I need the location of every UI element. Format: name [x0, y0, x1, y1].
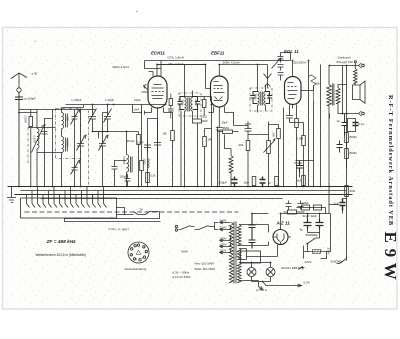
op tube ECH11 envelope — [148, 76, 167, 108]
wire x157 down — [148, 119, 158, 187]
trimmer capacitor C6 — [71, 160, 81, 187]
svg-text:6,3V: 6,3V — [304, 281, 310, 285]
filter caps 32uF + — [304, 219, 312, 230]
secondary HT winding — [237, 225, 241, 246]
svg-text:0,1μF: 0,1μF — [137, 141, 144, 145]
svg-text:4μ: 4μ — [300, 228, 304, 232]
resistor 1k bottom — [252, 177, 256, 186]
capacitor T1 tune right — [193, 97, 201, 110]
capacitor 10n ECL — [286, 113, 293, 123]
svg-text:0,1μF: 0,1μF — [295, 161, 303, 165]
resistor cath ECL — [295, 119, 299, 128]
resistor 25k vert — [246, 141, 250, 151]
wire: AVC bus y=190 — [21, 190, 347, 192]
resistor 800 — [345, 133, 349, 143]
capacitor 0.1u left — [296, 161, 303, 173]
wire x102 — [103, 113, 108, 139]
EBF11 internals — [214, 82, 225, 101]
tuning gang capacitor CV1 — [77, 135, 87, 187]
terminal mains b — [175, 229, 177, 231]
svg-text:32μF 32μF: 32μF 32μF — [303, 214, 318, 218]
antenna plug — [17, 88, 21, 92]
svg-text:0,3k: 0,3k — [151, 174, 157, 178]
svg-text:800Ω: 800Ω — [350, 135, 358, 139]
fuse 5A — [134, 212, 160, 215]
svg-text:G7A, 1,8mA: G7A, 1,8mA — [168, 56, 184, 60]
dash-dot screen around band filter — [56, 109, 81, 159]
wire NSF row — [297, 208, 326, 214]
wire x113 — [99, 105, 108, 139]
wire: chassis bus y=186 — [8, 186, 353, 188]
heater arrow 6,3V — [263, 282, 302, 288]
loudspeaker — [353, 81, 366, 103]
wire L2/L3 column — [62, 107, 84, 109]
socket pin numbers — [132, 243, 148, 262]
title vertical text — [381, 95, 400, 281]
svg-text:L=30pF: L=30pF — [72, 98, 82, 102]
dial lamp 1 — [247, 268, 256, 277]
capacitor 10nF — [133, 105, 152, 115]
capacitor NSF2 — [314, 205, 322, 210]
rectifier tube AZ11 — [273, 230, 288, 245]
IF transformer T1 primary — [185, 65, 187, 113]
tone box — [348, 119, 356, 132]
band switch contacts row — [27, 199, 107, 208]
capacitor cath — [154, 119, 161, 187]
wire x178 — [180, 111, 182, 187]
svg-text:S(bk) 2,6mA: S(bk) 2,6mA — [113, 65, 130, 69]
capacitor padder — [112, 161, 127, 187]
wire: antenna coupling bus — [19, 110, 96, 139]
svg-text:0,0004: 0,0004 — [122, 157, 126, 165]
filter cap 2 — [316, 219, 324, 230]
wire x213 — [209, 113, 234, 126]
svg-text:EGL 11: EGL 11 — [284, 49, 299, 54]
tuning gang capacitor CV2 — [99, 135, 109, 187]
terminal arrows bottom right — [299, 267, 305, 270]
svg-text:2MΩ: 2MΩ — [223, 126, 230, 130]
band switch shaft (dashed) — [25, 211, 239, 213]
svg-text:800Ω: 800Ω — [350, 151, 358, 155]
capacitor 20p — [216, 125, 223, 187]
output transformer core — [332, 84, 334, 106]
svg-text:20pF: 20pF — [222, 121, 228, 125]
tap arrow 240V — [220, 221, 227, 224]
svg-text:2μF: 2μF — [334, 202, 339, 206]
wire electrolytic feed — [252, 213, 269, 215]
shield T1 (dash-dot) — [179, 93, 201, 116]
capacitor stack c3 — [278, 73, 284, 81]
wire x313 down — [313, 101, 315, 187]
capacitor NSF1 — [302, 205, 310, 210]
volume potentiometer — [267, 141, 271, 154]
wire pot top — [248, 134, 269, 136]
trimmer arrow on L1 — [32, 125, 46, 153]
svg-text:25k: 25k — [163, 132, 168, 136]
speck inside — [34, 41, 35, 42]
oscillator coil L4 — [127, 132, 129, 187]
svg-text:250μF: 250μF — [219, 181, 228, 185]
resistor 1k2 — [302, 176, 306, 186]
wire 230V column — [321, 252, 327, 259]
wire: switch drop lines — [27, 187, 104, 199]
svg-text:100Ω: 100Ω — [201, 115, 207, 119]
wire x141 + resistor — [141, 105, 143, 161]
band filter coil L2 upper — [62, 108, 64, 137]
op tube ECL11 envelope — [285, 77, 302, 105]
svg-text:NSF: NSF — [303, 201, 309, 205]
svg-text:5A: 5A — [140, 208, 144, 212]
antenna — [11, 73, 27, 88]
power transformer primary winding — [229, 223, 233, 283]
svg-text:Geräusch: Geräusch — [338, 56, 351, 60]
svg-text:Sockelschaltung: Sockelschaltung — [125, 267, 147, 271]
capacitor 10n — [245, 126, 252, 135]
ECH11 pins top — [149, 69, 162, 77]
capacitor 100pF osc — [125, 175, 131, 187]
trimmer C8 — [89, 109, 97, 125]
wire: top link left — [18, 93, 20, 110]
wire: EBF11 grid left — [157, 65, 211, 89]
svg-text:520/380p: 520/380p — [331, 260, 344, 264]
coil small x147 — [148, 159, 150, 169]
svg-text:0,1μ: 0,1μ — [359, 122, 365, 126]
electrolytic 32uF a — [249, 214, 256, 235]
svg-text:0,35M: 0,35M — [24, 116, 28, 123]
svg-text:50k: 50k — [316, 82, 321, 86]
wire y160 — [296, 161, 314, 178]
svg-text:220V: 220V — [220, 226, 227, 230]
wire: EBF11 plate top — [219, 65, 267, 77]
band switch box — [21, 198, 117, 218]
wire speaker top — [329, 66, 359, 114]
wire y127 left — [28, 127, 56, 129]
IF transformer T1 secondary — [191, 91, 193, 119]
wire: input top bus y=112 — [19, 112, 37, 114]
svg-text:10nF: 10nF — [245, 122, 252, 126]
resistor 30 — [345, 186, 349, 197]
hatch fuse — [314, 250, 322, 254]
wire x52 — [52, 119, 54, 187]
wire ECL11 plate right — [301, 86, 314, 91]
svg-text:ca.100pF: ca.100pF — [24, 97, 37, 101]
svg-text:E 705 A: E 705 A — [257, 288, 268, 292]
ECL11 internals — [288, 83, 298, 99]
svg-text:A Z 11: A Z 11 — [276, 221, 291, 226]
capacitor ca.100pF — [15, 93, 23, 187]
svg-text:1kΩ: 1kΩ — [244, 181, 250, 185]
capacitor 500p a — [286, 201, 292, 210]
ground — [7, 187, 16, 203]
svg-text:202/230V~: 202/230V~ — [293, 61, 308, 65]
core marks L3 — [66, 138, 68, 152]
wire vertical x44 — [44, 132, 46, 187]
resistor det — [277, 129, 281, 139]
svg-text:Netz 110-240V: Netz 110-240V — [195, 262, 215, 266]
wire: dial lamp line — [65, 212, 161, 222]
svg-text:0,35M: 0,35M — [66, 140, 70, 147]
trimmer eye — [272, 58, 282, 69]
capacitor T1 tune — [178, 97, 185, 110]
resistor R01 — [345, 149, 349, 159]
tuning eye assembly — [264, 74, 272, 88]
svg-text:60W: 60W — [182, 250, 188, 254]
capacitor 500p b — [298, 201, 304, 210]
svg-text:Mix: 2,2mA: Mix: 2,2mA — [169, 62, 184, 66]
wire fuse — [304, 214, 331, 259]
wire: screen line — [157, 65, 206, 76]
dial lamp 2 — [266, 268, 275, 277]
IF T1 core — [188, 98, 190, 112]
svg-text:222V: 222V — [305, 260, 312, 264]
svg-text:0,35M: 0,35M — [33, 136, 37, 143]
svg-text:150V: 150V — [220, 237, 227, 241]
wire lamps bottom arrow — [252, 277, 271, 282]
resistor top right — [354, 63, 358, 85]
fuse secondary — [311, 250, 323, 254]
wire lamps top — [239, 263, 271, 268]
wire x163 — [164, 113, 173, 131]
wire AZ11 cathode — [281, 214, 331, 230]
bottom row: electrolytic 250u — [232, 177, 238, 187]
resistor M1 — [203, 137, 207, 147]
resistor 0.3k — [146, 173, 150, 183]
wire: osc top bus y=104 — [66, 104, 161, 106]
wire x346 down — [330, 85, 347, 261]
wire: y107 link — [83, 105, 85, 108]
mains switch pole 2 — [195, 226, 215, 230]
wire eye top — [281, 53, 291, 61]
trimmer capacitor C5 — [71, 109, 81, 127]
wire y113 to terminal — [338, 111, 362, 116]
resistor 25k osc — [137, 135, 141, 145]
IF transformer T2 primary — [258, 65, 260, 113]
band filter coil L3 lower — [62, 137, 64, 187]
mains switch pole 1 — [179, 226, 195, 230]
capacitor 50n — [337, 141, 343, 153]
wire ECL11 top pin — [292, 61, 294, 77]
svg-text:2000: 2000 — [254, 94, 258, 100]
wire y131 — [93, 131, 139, 133]
svg-text:6,3V ~ 50Hz: 6,3V ~ 50Hz — [173, 271, 190, 275]
resistor 2M horizontal — [223, 130, 233, 133]
wire: grid cap left — [142, 85, 149, 93]
capacitor stack c2 — [278, 65, 284, 71]
svg-text:L 30pF: L 30pF — [105, 98, 114, 102]
svg-text:2000: 2000 — [143, 159, 147, 165]
tap arrow 110V — [220, 251, 227, 254]
svg-text:0,1A für 150V: 0,1A für 150V — [173, 275, 191, 279]
wire tone — [319, 233, 321, 239]
ECH11 internals — [152, 85, 165, 99]
capacitor pad — [42, 119, 53, 135]
resistor screen small — [169, 99, 173, 106]
secondary rect heater winding — [237, 249, 241, 260]
electrolytic 32uF b — [249, 235, 256, 249]
svg-text:0,5M: 0,5M — [297, 137, 304, 141]
AZ11 anodes — [274, 234, 292, 245]
wire: box to fuse — [117, 208, 134, 215]
svg-text:110V: 110V — [220, 249, 227, 253]
wire x308/320 — [309, 61, 321, 187]
svg-text:300: 300 — [272, 133, 276, 138]
core marks L2 — [66, 114, 68, 128]
wire mains to taps — [215, 223, 219, 230]
wire y204 — [329, 199, 347, 214]
wire y125 — [234, 122, 249, 129]
svg-text:Wellenbereich 303,5 m (Mittel: Wellenbereich 303,5 m (Mittelwelle) — [36, 253, 86, 257]
terminal mains a — [175, 225, 177, 227]
svg-text:EBF11: EBF11 — [211, 51, 225, 56]
socket diagram circle — [128, 242, 149, 263]
shield T2 (dash-dot) — [250, 88, 272, 111]
resistor zigzag IF cathode — [225, 135, 234, 187]
svg-text:1μ: 1μ — [268, 181, 272, 185]
svg-text:300: 300 — [66, 117, 70, 122]
op tube EBF11 envelope — [211, 76, 229, 107]
wire: diode lines down — [214, 107, 225, 125]
wire ECL11 bottom — [290, 105, 297, 119]
wire x74 upper — [74, 110, 76, 163]
svg-text:125V: 125V — [220, 243, 227, 247]
trimmer C9 — [104, 109, 112, 132]
svg-text:2000: 2000 — [194, 100, 198, 106]
capacitor 2u bottom — [340, 199, 346, 211]
resistor bottom2 — [275, 177, 279, 186]
switch mains filter — [337, 257, 347, 264]
resistor 50k right — [309, 75, 317, 101]
wire heater right — [239, 281, 263, 290]
resistor 25k — [171, 131, 175, 141]
wire caps top — [308, 214, 320, 233]
coil L1 antenna (variable) — [37, 110, 62, 187]
svg-text:500/500p: 500/500p — [306, 233, 319, 237]
resistor anode T1 — [203, 100, 207, 108]
capacitor T2 tune — [251, 92, 258, 104]
terminal TA top — [359, 63, 362, 68]
wire: plate ECH11 to top bus — [145, 61, 291, 69]
wire: heater bus y=198 — [41, 198, 283, 200]
tap arrow 220V — [220, 228, 227, 231]
resistor 0.5M — [302, 136, 306, 146]
svg-text:1μ: 1μ — [337, 119, 341, 123]
socket pins — [137, 244, 139, 246]
svg-text:1k2: 1k2 — [297, 179, 302, 183]
svg-text:200V, 4,2mA: 200V, 4,2mA — [223, 61, 240, 65]
capacitor T2 tune right — [266, 92, 273, 104]
resistor antenna shunt — [29, 117, 33, 127]
resistor 100 — [193, 119, 202, 123]
choke box — [241, 251, 261, 263]
svg-text:10pF: 10pF — [134, 98, 141, 102]
IF transformer T2 secondary — [264, 85, 266, 111]
secondary heater winding — [237, 263, 241, 283]
capacitor 0.1u x147 — [144, 141, 151, 153]
svg-text:30Ω: 30Ω — [350, 189, 356, 193]
svg-text:ECH11 EBF11: ECH11 EBF11 — [282, 266, 302, 270]
speck top margin — [136, 11, 137, 12]
capacitor 0.1u dark — [353, 123, 359, 126]
svg-text:10nF: 10nF — [134, 108, 140, 112]
svg-text:R-F-T Fernmeldewerk Arnstadt V: R-F-T Fernmeldewerk Arnstadt VEB — [387, 95, 394, 226]
IF T2 core — [261, 92, 263, 106]
svg-text:2000: 2000 — [267, 94, 271, 100]
capacitor 1u — [342, 114, 348, 136]
wire x211 — [161, 97, 212, 187]
resistor 1W top — [288, 210, 297, 214]
svg-text:a 30: a 30 — [32, 72, 38, 76]
transformer taps to winding — [227, 223, 231, 253]
svg-text:ECH11: ECH11 — [151, 51, 165, 56]
svg-text:ZF = 468 kHz: ZF = 468 kHz — [46, 239, 77, 245]
wire: B+ bus y=194 — [15, 194, 353, 196]
wire: cathode drops — [152, 108, 164, 119]
svg-text:83a (g)f 150: 83a (g)f 150 — [337, 60, 354, 64]
svg-text:240V: 240V — [220, 219, 227, 223]
shield divider left (dash-dot) — [27, 128, 29, 164]
svg-text:230V: 230V — [327, 248, 331, 255]
capacitor stack c1 — [278, 53, 284, 63]
output transformer primary — [327, 66, 331, 214]
socket keyway — [136, 250, 141, 254]
wire x185 down — [184, 113, 186, 187]
wire x92 — [93, 105, 99, 132]
svg-text:2000: 2000 — [181, 100, 185, 106]
junction dots — [18, 112, 20, 114]
svg-text:K.M.L. (v. geg.): K.M.L. (v. geg.) — [109, 227, 129, 231]
wire heater chain — [239, 245, 278, 260]
output transformer secondary — [336, 85, 347, 114]
wire x88 — [88, 111, 90, 187]
wire HT to AZ11 — [239, 225, 269, 246]
svg-text:25 kΩ: 25 kΩ — [127, 139, 136, 143]
transformer core — [234, 222, 236, 284]
wire x283 — [283, 108, 285, 187]
svg-text:100pF: 100pF — [120, 175, 128, 179]
svg-text:1M: 1M — [208, 138, 212, 142]
core marks L4 — [131, 157, 133, 173]
svg-text:E 9 W: E 9 W — [381, 231, 400, 280]
tap arrow 150V — [220, 239, 227, 242]
tap arrow 125V — [220, 245, 227, 248]
switch tone right — [308, 238, 320, 252]
svg-text:50Hz 110-150V: 50Hz 110-150V — [195, 267, 216, 271]
svg-text:25k: 25k — [239, 143, 244, 147]
capacitor bottom — [260, 177, 266, 187]
